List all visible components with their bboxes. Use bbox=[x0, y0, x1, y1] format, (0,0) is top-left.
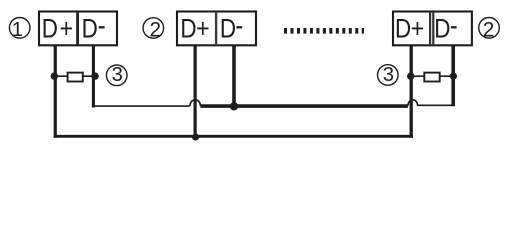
callout 1: first device bbox=[9, 18, 30, 41]
junction dot: device 1 D- / resistor bbox=[91, 72, 98, 79]
junction dot: device 2 D+ on bottom bus bbox=[192, 133, 199, 140]
wire: device 2 D- drop to trunk (thick) bbox=[232, 46, 236, 108]
bus continuation dotted line bbox=[284, 28, 364, 34]
svg-text:2: 2 bbox=[149, 18, 161, 41]
callout 3: termination resistor right bbox=[378, 64, 399, 86]
device 3 terminal label D- bbox=[434, 15, 456, 44]
wire: D- thin segment from device 1 to hop bbox=[92, 105, 190, 107]
device 2 terminal block bbox=[177, 12, 256, 46]
svg-text:3: 3 bbox=[383, 64, 394, 86]
svg-text:+: + bbox=[60, 14, 74, 44]
wire: D+ bottom bus bbox=[54, 135, 413, 138]
termination resistor, device 3 bbox=[424, 73, 439, 82]
callout 2: last device bbox=[479, 18, 500, 42]
callout 2: middle device bbox=[143, 18, 164, 42]
svg-text:D: D bbox=[220, 15, 236, 44]
device 3 terminal label D+ bbox=[395, 14, 424, 44]
svg-text:+: + bbox=[411, 14, 425, 44]
svg-text:3: 3 bbox=[112, 64, 123, 86]
junction dot: device 3 D- / resistor bbox=[450, 73, 457, 80]
junction dot: device 1 D+ / resistor bbox=[51, 72, 58, 79]
svg-text:D: D bbox=[395, 15, 411, 44]
device 2 terminal label D- bbox=[220, 15, 242, 44]
svg-text:D: D bbox=[180, 15, 196, 44]
resistor stub: device 1 left bbox=[54, 75, 68, 77]
crossover hop: D- bus over device 2 D+ wire bbox=[190, 100, 201, 106]
resistor stub: device 3 right bbox=[439, 75, 453, 77]
wire: device 3 D- drop (thick) bbox=[451, 46, 455, 106]
device 3 terminal block bbox=[393, 12, 472, 46]
wire: D- trunk bus (thick) bbox=[200, 104, 408, 108]
wire: device 1 D+ drop to bottom bus bbox=[54, 46, 57, 138]
svg-text:D: D bbox=[82, 15, 98, 44]
termination resistor, device 1 bbox=[68, 73, 83, 82]
callout 3: termination resistor left bbox=[106, 64, 127, 86]
resistor stub: device 3 left bbox=[411, 75, 425, 77]
wire: device 2 D+ drop to bottom bus bbox=[194, 46, 197, 138]
junction dot: device 3 D+ / resistor bbox=[407, 72, 414, 79]
device 1 terminal label D+ bbox=[42, 14, 73, 44]
svg-text:2: 2 bbox=[483, 18, 495, 41]
wire: D- thin segment from hop to device 3 bbox=[418, 104, 454, 106]
svg-text:+: + bbox=[196, 14, 210, 44]
svg-text:1: 1 bbox=[12, 19, 23, 41]
device 1 terminal block bbox=[39, 12, 117, 46]
wire: device 3 D+ drop to bottom bus bbox=[410, 46, 413, 138]
resistor stub: device 1 right bbox=[83, 75, 96, 77]
svg-text:D: D bbox=[42, 15, 58, 44]
device 2 terminal label D+ bbox=[180, 14, 209, 44]
wire: device 1 D- drop bbox=[92, 46, 95, 108]
device 1 terminal label D- bbox=[82, 15, 105, 44]
crossover hop: D- bus over device 3 D+ wire bbox=[408, 100, 418, 106]
svg-text:D: D bbox=[434, 15, 450, 44]
junction dot: device 2 D- on trunk bbox=[230, 102, 238, 110]
